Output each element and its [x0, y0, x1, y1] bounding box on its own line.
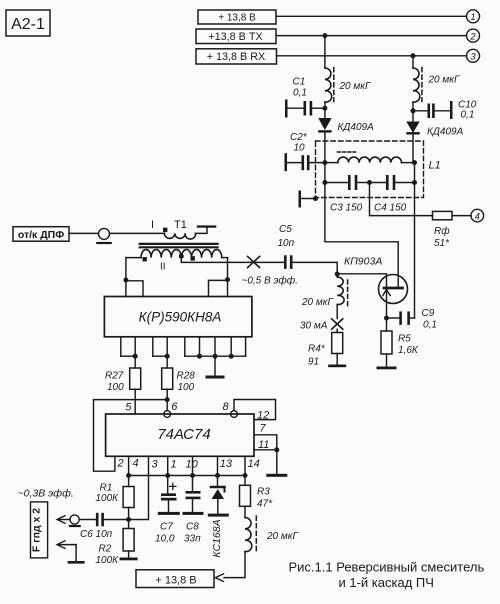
wire TX branch down	[324, 36, 326, 68]
wire bottom bus	[129, 475, 245, 477]
svg-text:0,1: 0,1	[423, 320, 437, 331]
svg-text:20 мкГ: 20 мкГ	[428, 75, 461, 86]
svg-text:R27: R27	[105, 371, 124, 382]
junction gate node	[335, 272, 340, 277]
svg-text:Т1: Т1	[174, 219, 187, 231]
inductor choke L-RX 20 mkG	[413, 68, 461, 103]
wire L1 left vertical through caps	[324, 163, 326, 183]
block label A2-1	[6, 10, 50, 36]
svg-text:13: 13	[220, 458, 233, 470]
ground below R2	[120, 551, 138, 560]
svg-text:КП903А: КП903А	[344, 256, 382, 268]
terminal 3	[467, 49, 480, 62]
svg-text:20 мкГ: 20 мкГ	[301, 297, 334, 308]
wire pin 10	[186, 456, 199, 475]
wire +13,8V RX to terminal 3	[277, 55, 467, 57]
wire choke to diode 2	[412, 102, 414, 121]
junction L1 left node	[322, 160, 327, 165]
capacitor C4 150	[370, 175, 415, 214]
svg-text:R2: R2	[99, 544, 112, 555]
wire RX branch down	[412, 56, 414, 68]
svg-text:0,1: 0,1	[293, 88, 307, 99]
capacitor C7 10,0 electrolytic	[155, 476, 180, 545]
inductor choke source 20 mkG	[301, 277, 348, 308]
svg-text:0,1: 0,1	[461, 110, 475, 121]
svg-text:I: I	[151, 219, 154, 231]
wire L1 left to drain jog	[325, 183, 398, 289]
svg-text:+13,8 В ТХ: +13,8 В ТХ	[208, 31, 262, 43]
capacitor C1 0,1	[285, 77, 325, 118]
svg-text:А2-1: А2-1	[11, 16, 45, 33]
svg-text:30 мА: 30 мА	[300, 321, 328, 332]
transformer T1 core	[140, 244, 218, 247]
svg-text:8: 8	[223, 401, 230, 413]
wire choke to measure point	[336, 305, 338, 319]
svg-text:74АС74: 74АС74	[157, 426, 210, 443]
junction source node	[384, 316, 389, 321]
arrow to F box	[57, 516, 70, 524]
svg-text:10: 10	[294, 143, 306, 154]
svg-text:R4*: R4*	[308, 344, 326, 355]
svg-text:4: 4	[133, 458, 139, 470]
svg-text:R3: R3	[257, 487, 270, 498]
resistor R4* 91	[308, 329, 343, 367]
net box +13,8 V TX	[196, 29, 276, 44]
measure point ~0,5 V eff	[242, 256, 298, 286]
capacitor C2* 10	[285, 132, 325, 171]
net box +13,8 V	[198, 10, 276, 24]
svg-text:КД409А: КД409А	[427, 127, 464, 138]
wire pin 13	[218, 456, 233, 475]
junction R28 node	[165, 397, 170, 402]
svg-text:L1: L1	[429, 160, 441, 172]
ground U1	[206, 356, 225, 378]
wire left pin pair to U1	[126, 280, 143, 297]
wire choke to diode node	[324, 102, 326, 118]
pin 8 bubble	[223, 401, 238, 417]
ground T1 primary	[196, 225, 217, 233]
wire diode to L1 box	[324, 133, 326, 163]
svg-text:3: 3	[152, 459, 159, 471]
wire connector to T1	[110, 232, 165, 234]
wire center tap to C5	[181, 256, 284, 262]
capacitor C8 33p	[183, 476, 204, 545]
svg-text:C9: C9	[422, 308, 435, 319]
resistor Rf 51*	[433, 211, 453, 249]
svg-text:~0,5 В эфф.: ~0,5 В эфф.	[242, 275, 298, 287]
shield box of filter L1 (dashed)	[316, 141, 441, 198]
svg-text:14: 14	[248, 458, 260, 470]
wire pin 1	[168, 456, 177, 475]
net box +13,8 V RX	[196, 49, 277, 64]
transformer T1 primary winding I	[151, 219, 196, 239]
wire pin 11 to ground	[254, 439, 287, 477]
svg-text:1: 1	[470, 12, 475, 23]
svg-text:+ 13,8 В RX: + 13,8 В RX	[207, 51, 266, 63]
svg-text:C5: C5	[279, 224, 292, 235]
junction U1 pin dots	[133, 354, 234, 359]
svg-text:и 1-й каскад ПЧ: и 1-й каскад ПЧ	[339, 575, 434, 590]
transformer T1 secondary winding II	[126, 250, 228, 273]
svg-text:Rф: Rф	[434, 225, 450, 237]
wire secondary right end down	[227, 258, 229, 280]
transistor VT1 KP903A	[344, 256, 408, 319]
diode VD1 KD409A	[318, 118, 374, 133]
wire pin 7	[254, 423, 277, 450]
svg-text:5: 5	[125, 402, 132, 414]
measure point 30 mA	[300, 319, 343, 332]
wire +13,8V TX to terminal 2	[276, 35, 467, 37]
svg-text:12: 12	[257, 410, 269, 422]
svg-text:10: 10	[186, 459, 199, 471]
svg-text:10,0: 10,0	[155, 534, 175, 545]
wire pin 4	[129, 456, 139, 475]
inductor L1	[325, 152, 415, 163]
pin 6 bubble	[164, 401, 179, 417]
svg-text:100: 100	[107, 382, 124, 393]
wires U1 bottom pins	[121, 337, 246, 356]
svg-text:C6 10п: C6 10п	[80, 529, 113, 540]
svg-text:3: 3	[470, 52, 476, 63]
svg-text:20 мкГ: 20 мкГ	[339, 81, 372, 92]
input box ot/k DPF	[13, 227, 69, 242]
svg-text:С3 150: С3 150	[330, 203, 363, 214]
resistor R27 100	[105, 356, 141, 393]
svg-text:К(Р)590КН8А: К(Р)590КН8А	[139, 310, 222, 325]
svg-text:КС168А: КС168А	[211, 519, 223, 557]
svg-text:+ 13,8 В: + 13,8 В	[155, 574, 196, 586]
ground below R5	[377, 354, 397, 369]
svg-text:C8: C8	[186, 522, 199, 533]
capacitor C10 0,1	[413, 100, 477, 121]
wire C5 corner to gate node	[336, 262, 338, 277]
svg-text:7: 7	[260, 423, 267, 435]
svg-text:100К: 100К	[96, 493, 120, 504]
svg-text:от/к ДПФ: от/к ДПФ	[18, 229, 64, 241]
junction TX node	[322, 33, 327, 38]
net box +13,8 V bottom	[136, 570, 214, 588]
junction T1 center tap	[179, 254, 184, 259]
resistor R3 47*	[240, 476, 274, 510]
wire DPF to connector	[69, 232, 99, 234]
wire pin 3 long to C6 node	[129, 456, 159, 519]
svg-text:2: 2	[469, 31, 476, 42]
svg-text:4: 4	[475, 211, 480, 222]
diode VD2 KD409A	[406, 122, 463, 138]
svg-text:R5: R5	[398, 334, 411, 345]
IC U2 74AC74	[106, 414, 254, 456]
junction RX node	[411, 53, 416, 58]
capacitor C9 0,1	[387, 308, 437, 331]
wire pin 8 to pin 12	[234, 400, 276, 422]
wire right pin pair to U1	[209, 280, 228, 297]
junction left pin pair	[123, 278, 128, 283]
junction cap row left	[322, 180, 327, 185]
junction L1 right node	[412, 160, 417, 165]
wire R3 to choke	[244, 506, 246, 517]
wire diode 2 to L1 box	[412, 135, 414, 163]
svg-text:33п: 33п	[184, 534, 201, 545]
svg-text:91: 91	[308, 357, 319, 368]
connector XW2	[69, 515, 81, 527]
connector XW1	[96, 228, 112, 244]
svg-text:51*: 51*	[434, 238, 450, 249]
wire choke to +13,8V box with arrow	[216, 552, 246, 582]
svg-text:Рис.1.1 Реверсивный смеситель: Рис.1.1 Реверсивный смеситель	[289, 560, 485, 575]
wire L1 right down to C9	[414, 183, 416, 319]
svg-text:C7: C7	[160, 522, 173, 533]
wire R27 to pin 5	[134, 389, 136, 414]
wire bypass pin6 to pin2	[94, 400, 168, 472]
wire Rf to terminal 4	[452, 215, 471, 217]
caption	[289, 560, 485, 590]
wire +13,8V to terminal 1	[276, 15, 467, 17]
svg-text:II: II	[160, 262, 166, 273]
wire R28 to pin 6	[166, 389, 168, 410]
terminal 1	[467, 10, 480, 23]
terminal 2	[467, 29, 480, 42]
wire gate	[337, 274, 386, 288]
svg-text:~0,3В эфф.: ~0,3В эфф.	[18, 488, 74, 500]
capacitor C6 10p	[79, 513, 128, 540]
svg-text:1,6К: 1,6К	[398, 345, 419, 356]
inductor choke L-TX 20 mkG	[325, 68, 372, 103]
terminal 4	[471, 209, 484, 222]
wire R1 to R2	[128, 508, 130, 529]
junction C10 node	[411, 108, 416, 113]
IC U1 K(P)590KN8A	[104, 297, 252, 337]
svg-text:2: 2	[117, 458, 124, 470]
capacitor C5 10p	[278, 224, 338, 269]
svg-text:11: 11	[258, 439, 269, 451]
svg-text:R28: R28	[177, 371, 196, 382]
junction right pin pair	[225, 277, 230, 282]
resistor R5 1,6K	[381, 318, 419, 356]
wire pin 14	[245, 456, 260, 475]
svg-text:С4 150: С4 150	[374, 203, 407, 214]
output box F gpd x 2	[31, 502, 48, 558]
svg-text:1: 1	[171, 459, 177, 471]
svg-text:C1: C1	[293, 77, 306, 88]
junction cap row right	[412, 180, 417, 185]
arrow shield to ground	[57, 541, 85, 564]
svg-text:C2*: C2*	[290, 132, 308, 143]
ground at L1 shield	[299, 191, 319, 208]
junction bus dots	[126, 473, 247, 478]
junction C6 node	[126, 517, 131, 522]
capacitor C3 150	[325, 175, 370, 214]
wire L1 right vertical through caps	[414, 163, 416, 183]
resistor R28 100	[162, 356, 196, 393]
svg-text:20 мкГ: 20 мкГ	[266, 531, 299, 542]
junction C1 node	[322, 106, 327, 111]
svg-text:R1: R1	[100, 483, 113, 494]
wire secondary left end down	[125, 258, 127, 280]
svg-text:100К: 100К	[96, 555, 120, 566]
svg-text:47*: 47*	[257, 499, 273, 510]
zener diode VD3 KS168A	[208, 476, 229, 558]
resistor R2 100K	[96, 529, 135, 567]
inductor choke feed 20 mkG	[245, 516, 299, 552]
svg-text:10п: 10п	[278, 238, 295, 249]
junction cap row center	[367, 180, 372, 185]
resistor R1 100K	[96, 476, 135, 508]
svg-text:100: 100	[178, 382, 195, 393]
svg-text:+ 13,8 В: + 13,8 В	[218, 13, 256, 24]
svg-text:F гпд x 2: F гпд x 2	[31, 508, 43, 552]
svg-text:6: 6	[171, 401, 178, 413]
svg-text:КД409А: КД409А	[338, 122, 375, 133]
ground below R4	[328, 354, 346, 368]
wire C3/C4 tap to Rf	[370, 183, 433, 216]
